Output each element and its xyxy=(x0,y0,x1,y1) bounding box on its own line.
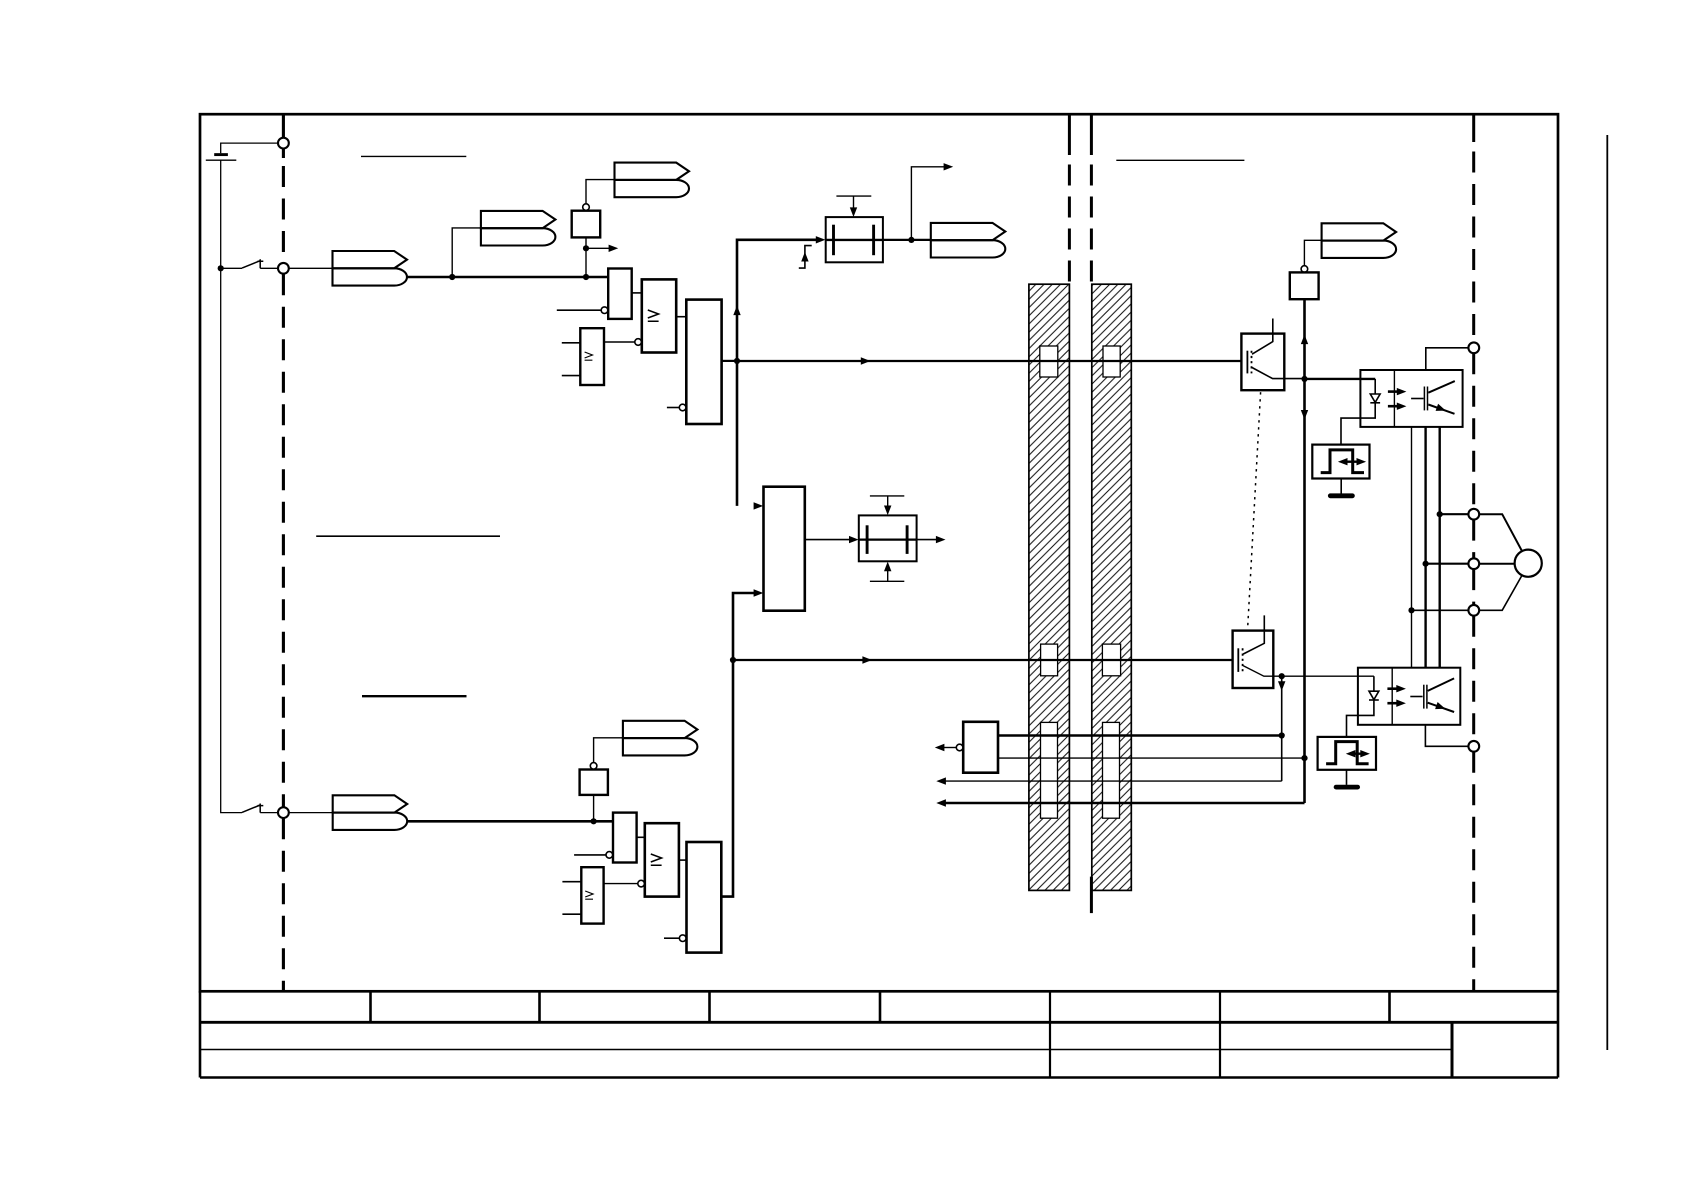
gate D inverted input stub xyxy=(667,407,679,409)
receiver N3 output bubble xyxy=(956,744,963,751)
wire flag X7 to block N4 xyxy=(1304,240,1321,265)
wire receiver N3 bubble to arrow xyxy=(943,747,956,749)
wire gate C2 output to gate B2 bubble xyxy=(604,883,638,885)
wire battery minus down to node K1 xyxy=(220,160,222,268)
wire phase W to boundary circle xyxy=(1412,609,1469,611)
edge trigger glyph at G1a xyxy=(799,246,812,269)
wire phase U to motor xyxy=(1479,514,1522,551)
boundary circle (upper driver supply) xyxy=(1468,342,1479,353)
U2 LED cathode lead to hysteresis H2 xyxy=(1347,700,1374,737)
arrow left (fault signal) xyxy=(935,744,945,751)
block F bar left xyxy=(866,525,869,554)
boundary dash line P3 (right EMC boundary) xyxy=(1090,116,1093,914)
switch S2 contact post xyxy=(258,804,264,813)
signal flag X2 xyxy=(481,211,556,246)
wire block E input 2 from node K7 xyxy=(733,593,754,660)
title block left edge xyxy=(199,991,202,1077)
right margin line xyxy=(1606,135,1608,1050)
H2 pulse glyph xyxy=(1326,742,1369,764)
transistor Q2 emitter xyxy=(1243,666,1374,676)
gate B2 input bubble xyxy=(638,880,645,887)
transistor Q2 channel bar dashed xyxy=(1242,648,1244,672)
U2 output IGBT gate bars xyxy=(1423,685,1425,709)
U1 output IGBT gate bars xyxy=(1423,387,1425,411)
hysteresis block H2 xyxy=(1318,737,1376,770)
block F top stem xyxy=(887,496,889,507)
barrier feedthrough window (upper rail, right bar) xyxy=(1103,346,1120,377)
wire tap with arrow from node K4 xyxy=(586,247,610,249)
transistor Q2 gate bar xyxy=(1237,648,1239,672)
gate A2 (AND stage lower) xyxy=(613,813,637,863)
inversion bubble on block N1 xyxy=(583,204,590,211)
node K15 junction (phase W) xyxy=(1408,607,1414,613)
dotted link Q1 to Q2 xyxy=(1248,392,1261,629)
wire gate B to gate D xyxy=(676,316,686,318)
battery G1 negative plate xyxy=(206,159,237,161)
block F top tee xyxy=(870,495,904,497)
receiver block N3 (feedback receiver) xyxy=(963,722,998,773)
node K11 junction xyxy=(1279,673,1285,679)
wire lower command rail (flag X5 to gate A2) xyxy=(407,820,613,823)
arrow on lower PWM rail xyxy=(862,656,872,663)
wire lower PWM rail through barrier xyxy=(733,659,1233,661)
inversion bubble on block N2 xyxy=(590,763,597,770)
U2 LED anode lead xyxy=(1373,676,1375,691)
boundary crossing circle (upper switch line) xyxy=(278,263,289,274)
wire phase W to motor xyxy=(1479,576,1522,611)
title block row1 bottom line xyxy=(200,1021,1558,1024)
gate D2 inverted input stub xyxy=(664,937,679,939)
gate C label xyxy=(585,352,593,360)
wire U1 top to boundary circle xyxy=(1426,348,1469,370)
node K6 junction xyxy=(908,237,914,243)
wire branch node K2 up to flag X2 xyxy=(452,228,481,277)
title block thick divider xyxy=(1451,1022,1454,1077)
wire block N1 bubble up to flag X3 xyxy=(586,180,615,204)
pulse block G1a (gating unit) xyxy=(826,217,883,262)
block F crossbar xyxy=(859,538,917,540)
boundary circle (lower driver supply) xyxy=(1468,741,1479,752)
boundary circle phase W xyxy=(1468,605,1479,616)
gate D2 (lock stage lower) xyxy=(687,842,722,953)
wire battery plus to boundary circle xyxy=(221,143,278,153)
transistor Q1 channel bar dashed xyxy=(1251,351,1253,374)
gate D input bubble xyxy=(679,404,686,411)
wire switch S2 to boundary circle xyxy=(260,812,278,814)
arrow up on gate drive bus xyxy=(1301,335,1308,345)
signal flag X5 (lower input) xyxy=(333,795,408,830)
U2 LED cathode bar xyxy=(1369,699,1379,701)
U1 emitter arrow xyxy=(1436,404,1446,411)
edge trigger arrow xyxy=(801,252,808,262)
gate B2 label xyxy=(651,854,662,865)
node K1 junction xyxy=(218,265,224,271)
title block full-height dividers xyxy=(1050,991,1220,1077)
U1 LED anode lead xyxy=(1374,379,1376,394)
optocoupler U1 divider xyxy=(1393,370,1395,427)
wire feedback line 3 through barrier xyxy=(945,780,1282,782)
wire K11 down to feedback lines xyxy=(1281,676,1283,781)
arrow into block E input 1 xyxy=(754,502,764,509)
wire block F output with arrow xyxy=(917,539,937,541)
transistor Q1 gate bar xyxy=(1246,351,1248,374)
wire block E output to block F xyxy=(805,539,850,541)
battery G1 positive plate xyxy=(214,153,228,156)
U1 LED cathode lead to hysteresis H1 xyxy=(1341,403,1375,445)
boundary crossing circle (battery feed) xyxy=(278,138,289,149)
node K5 junction xyxy=(734,358,740,364)
barrier feedthrough window (upper rail, left bar) xyxy=(1040,346,1058,377)
U1 output IGBT collector xyxy=(1428,381,1455,393)
arrow left on feedback line 4 xyxy=(936,799,946,806)
node K12 junction xyxy=(1279,732,1285,738)
wire G1a output to node K6 xyxy=(883,239,931,241)
gate B (OR stage upper) xyxy=(642,279,676,352)
wire feedback line 2 through barrier xyxy=(998,757,1305,759)
wire vertical bus lower (node K7 to gate D2 output) xyxy=(721,660,733,897)
wire phase vertical 2 xyxy=(1424,427,1426,668)
boundary circle phase V xyxy=(1468,558,1479,569)
arrow down on gate drive bus xyxy=(1301,410,1308,420)
inversion bubble on block N4 xyxy=(1301,266,1308,273)
gate D2 input bubble xyxy=(679,935,686,942)
U2 LED triangle xyxy=(1369,691,1379,699)
pulse block G1a crossbar xyxy=(826,239,883,241)
U2 emitter arrow xyxy=(1435,702,1445,709)
signal flag X1 (upper input) xyxy=(333,251,408,286)
switch S2 blade xyxy=(242,805,260,812)
transistor Q1 collector stub xyxy=(1252,319,1273,355)
U1 light arrow 2 xyxy=(1388,405,1398,408)
node K2 junction xyxy=(449,274,455,280)
gate A2 inverted input stub xyxy=(574,854,606,856)
node K3 junction xyxy=(583,274,589,280)
node K9 junction xyxy=(1301,376,1307,382)
block F (DC link block) xyxy=(859,515,917,561)
EMC barrier bar right (hatched) xyxy=(1092,284,1132,890)
arrow on upper PWM rail xyxy=(861,357,871,364)
gate C2 input stub 2 xyxy=(562,913,581,915)
signal flag X6 xyxy=(623,721,698,756)
U1 LED triangle xyxy=(1370,394,1380,402)
gate C2 (OR stage small lower) xyxy=(581,867,603,923)
optocoupler U2 divider xyxy=(1391,668,1393,725)
gate D (lock stage upper) xyxy=(686,300,721,424)
boundary dash line P2 (left EMC boundary) xyxy=(1068,116,1071,285)
U2 output IGBT collector xyxy=(1428,678,1454,691)
barrier feedthrough window (lower rail, right bar) xyxy=(1102,644,1120,676)
gate A2 input bubble xyxy=(606,852,613,859)
transistor Q1 emitter xyxy=(1252,368,1305,379)
signal flag X7 (right section) xyxy=(1322,223,1397,258)
arrow right (to DC link) xyxy=(936,536,946,543)
arrow down on K11 wire xyxy=(1278,681,1285,691)
wire U2 bottom to boundary circle xyxy=(1425,725,1468,747)
barrier feedthrough window (lower rail, left bar) xyxy=(1041,644,1058,676)
node K8 junction xyxy=(591,818,597,824)
U2 output IGBT emitter xyxy=(1428,703,1454,712)
gate B2 (OR stage lower) xyxy=(645,823,679,896)
arrow up into F bottom xyxy=(884,562,891,572)
ground symbol below H2 xyxy=(1346,770,1348,785)
H2 double arrow xyxy=(1352,753,1363,755)
node K4 junction xyxy=(583,245,589,251)
ground symbol below H1 xyxy=(1340,479,1342,494)
title block bottom line xyxy=(200,1076,1558,1079)
arrow into block F xyxy=(849,536,859,543)
title block row1 dividers xyxy=(371,991,1390,1022)
transistor Q1 (upper IGBT) box xyxy=(1241,334,1284,391)
wire phase U to boundary circle xyxy=(1440,513,1469,515)
H1 pulse glyph xyxy=(1321,450,1364,473)
EMC barrier bar left (hatched) xyxy=(1029,284,1070,890)
gate C (OR stage small upper) xyxy=(580,328,604,385)
H1 double arrow xyxy=(1345,461,1360,463)
U1 LED cathode bar xyxy=(1370,402,1380,404)
block E (modulator) xyxy=(764,487,805,611)
label rule line (right section) xyxy=(1116,159,1244,161)
gate B input bubble xyxy=(635,339,642,346)
arrow right (status signal) xyxy=(944,163,954,170)
wire gate A to gate B xyxy=(632,292,642,294)
boundary dash line P4 (right cabinet boundary) xyxy=(1472,116,1475,992)
U1 light arrow 1 xyxy=(1388,390,1398,393)
label rule line (middle left section) xyxy=(316,535,500,537)
wire phase V to boundary circle xyxy=(1426,563,1469,565)
gate C2 label xyxy=(585,891,593,899)
wire block N2 bubble up to flag X6 xyxy=(594,738,623,763)
wire gate D output to node K5 xyxy=(722,360,737,362)
pulse block G1a top tee xyxy=(836,195,871,197)
wire boundary circle to flag X1 xyxy=(289,267,333,269)
wire node K8 up to block N2 xyxy=(593,795,595,821)
wire boundary circle to flag X5 xyxy=(289,812,333,814)
gate A (AND stage upper) xyxy=(608,269,632,319)
block N2 (interface block lower) xyxy=(580,770,608,795)
switch S1 contact post xyxy=(258,259,264,268)
wire vertical bus to pulse block G1a and down to block E xyxy=(737,240,817,506)
gate C input stub 2 xyxy=(562,375,581,377)
node K14 junction (phase V) xyxy=(1423,561,1429,567)
wire lower input vertical (node K1 to switch S2) xyxy=(221,268,242,812)
transistor Q2 collector stub xyxy=(1243,615,1264,654)
boundary circle phase U xyxy=(1468,509,1479,520)
wire phase vertical 1 (thin) xyxy=(1411,427,1413,668)
boundary crossing circle (lower switch line) xyxy=(278,807,289,818)
U1 output IGBT gate lead xyxy=(1411,398,1423,400)
block N1 (interface block upper) xyxy=(572,211,601,238)
gate C2 input stub 1 xyxy=(562,881,581,883)
optocoupler U1 (upper gate driver) box xyxy=(1360,370,1462,427)
U2 output IGBT gate lead xyxy=(1410,696,1422,698)
label rule line (lower left section) xyxy=(362,695,467,697)
title block right edge xyxy=(1557,991,1560,1077)
signal flag X3 xyxy=(615,163,690,198)
barrier feedthrough window (feedback lines, right bar) xyxy=(1103,722,1120,818)
wire gate drive bus vertical xyxy=(1303,299,1306,803)
node K13 junction (phase U) xyxy=(1437,511,1443,517)
hysteresis block H1 xyxy=(1312,445,1369,479)
gate C input stub 1 xyxy=(562,342,581,344)
wire node K1 to switch S1 xyxy=(221,267,242,269)
arrow down into G1a top xyxy=(850,207,857,217)
optocoupler U2 (lower gate driver) box xyxy=(1358,668,1460,725)
block F bar right xyxy=(906,525,909,554)
wire node K6 up with arrow xyxy=(911,167,944,240)
label rule line (top left section) xyxy=(361,155,466,157)
arrow left on feedback line 3 xyxy=(936,777,946,784)
wire phase V to motor xyxy=(1479,563,1514,565)
pulse block G1a top stem xyxy=(853,196,855,209)
switch S1 blade xyxy=(242,261,260,268)
motor M1 xyxy=(1515,550,1542,577)
U2 light arrow 2 xyxy=(1387,702,1397,705)
wire gate A2 to gate B2 xyxy=(637,836,645,838)
wire gate C output to gate B bubble xyxy=(604,341,635,343)
barrier feedthrough window (feedback lines, left bar) xyxy=(1041,722,1058,818)
U2 light arrow 1 xyxy=(1387,687,1397,690)
block F bottom tee xyxy=(870,580,904,582)
drawing border frame xyxy=(200,114,1558,991)
pulse block G1a bar right xyxy=(872,225,875,256)
arrow into block E input 2 xyxy=(754,589,764,596)
block N4 (interface block right) xyxy=(1290,272,1319,299)
wire upper command rail (flag X1 to gate A) xyxy=(407,276,608,279)
wire feedback line 1 through barrier xyxy=(998,734,1282,736)
pulse block G1a bar left xyxy=(832,225,835,256)
arrow up on vertical bus xyxy=(733,306,740,316)
node K10 junction xyxy=(1301,755,1307,761)
gate A inverted input stub xyxy=(557,309,601,311)
wire Q1 emitter to optocoupler U1 xyxy=(1305,378,1376,380)
transistor Q2 (lower IGBT) box xyxy=(1233,631,1274,688)
wire branch node K3 up to block N1 xyxy=(585,237,587,277)
wire upper PWM rail through barrier xyxy=(737,360,1241,362)
arrow down into F top xyxy=(884,505,891,515)
wire switch S1 to boundary circle xyxy=(260,267,278,269)
arrow tap right xyxy=(609,245,619,252)
title block row2 line xyxy=(200,1049,1452,1051)
arrow into pulse block G1a xyxy=(816,236,826,243)
U1 output IGBT emitter xyxy=(1428,405,1454,414)
wire gate B2 to gate D2 xyxy=(679,859,687,861)
block F bottom stem xyxy=(887,570,889,581)
node K7 junction xyxy=(730,657,736,663)
gate A input bubble xyxy=(601,307,608,314)
wire feedback line 4 through barrier xyxy=(945,802,1305,804)
signal flag X4 xyxy=(931,223,1006,258)
boundary dash line P1 (left cabinet boundary) xyxy=(282,116,285,992)
wire phase vertical 3 xyxy=(1438,427,1440,668)
gate B label xyxy=(648,310,659,321)
